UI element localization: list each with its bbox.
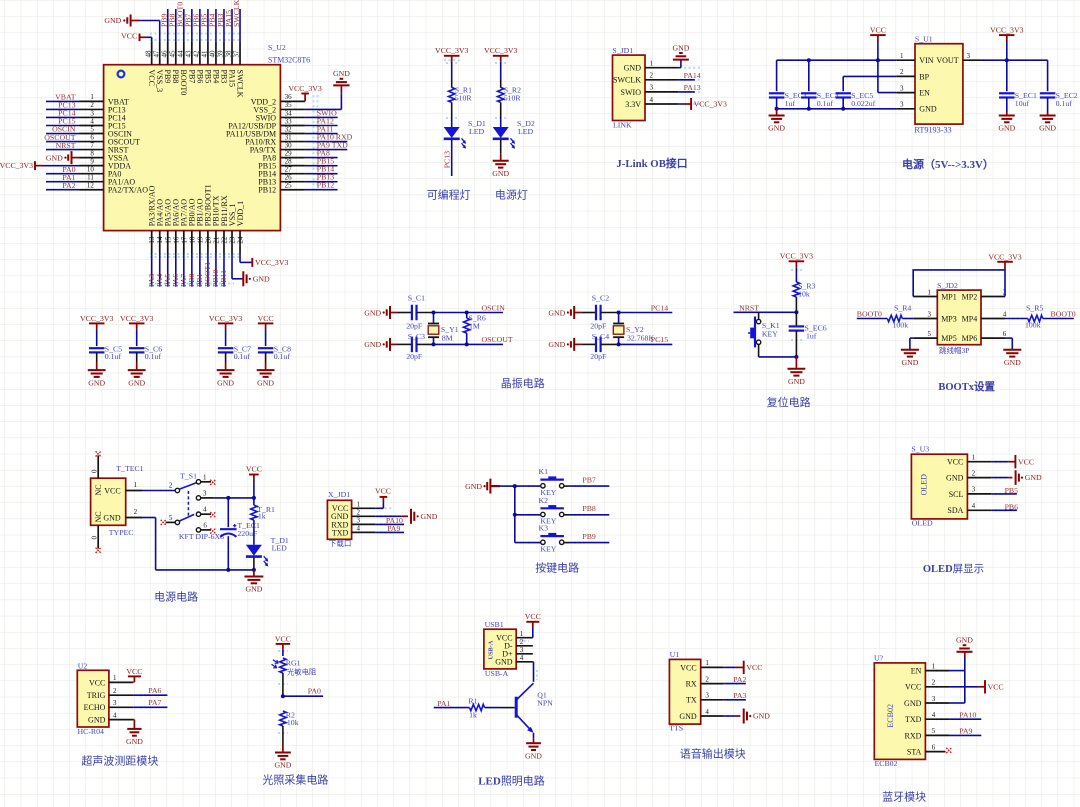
junction xyxy=(465,311,469,315)
pin 32 PA11/USB/DM xyxy=(226,125,305,138)
svg-text:34: 34 xyxy=(285,109,293,117)
svg-text:510R: 510R xyxy=(504,94,522,103)
svg-text:PB9: PB9 xyxy=(163,70,172,84)
connector USB1 inner label xyxy=(488,640,495,659)
net label PC15 xyxy=(58,117,75,126)
wire net PA2 xyxy=(46,189,80,191)
wire net NRST xyxy=(734,311,797,313)
pin 22 PB11/RX xyxy=(220,195,229,254)
wire net PC13 xyxy=(46,108,80,110)
svg-text:1: 1 xyxy=(134,481,138,489)
wire VSSA to ground xyxy=(72,157,80,159)
junction xyxy=(617,342,621,346)
wire net PA0 xyxy=(283,695,323,697)
svg-text:20pF: 20pF xyxy=(406,352,423,361)
pin 18 PB0/AO xyxy=(188,198,197,253)
net label PA7 xyxy=(179,274,188,287)
svg-text:PB4: PB4 xyxy=(211,70,220,84)
svg-text:GND: GND xyxy=(753,712,770,721)
pin 11 PA1/AO xyxy=(80,174,136,187)
connector JD1 J-Link body xyxy=(613,55,646,120)
svg-text:VCC: VCC xyxy=(375,487,391,496)
wire net PB7 xyxy=(564,485,609,487)
wire pin5 to ground xyxy=(910,338,913,350)
junction xyxy=(807,58,811,62)
net label BOOT0 xyxy=(857,310,882,319)
svg-text:44: 44 xyxy=(177,50,185,58)
junction xyxy=(876,58,880,62)
pin 1 VCC xyxy=(680,659,723,672)
svg-text:VCC: VCC xyxy=(275,634,291,643)
module U? ECB02 body xyxy=(874,663,925,760)
svg-text:MP5: MP5 xyxy=(941,334,957,343)
net label OSCIN xyxy=(482,303,506,312)
module U2 reference xyxy=(78,661,88,670)
net label PB3 xyxy=(216,13,225,27)
pin 10 PA0 xyxy=(80,165,122,178)
module U1 reference xyxy=(670,650,680,659)
LED S_D1 xyxy=(444,119,486,149)
svg-text:PA2/TX/AO: PA2/TX/AO xyxy=(108,186,148,195)
svg-text:4: 4 xyxy=(203,506,207,514)
ground xyxy=(492,154,509,178)
caption LED照明电路 xyxy=(478,775,545,788)
svg-text:GND: GND xyxy=(465,482,482,491)
ground (VSSA) xyxy=(46,151,72,164)
pushbutton K1 KEY xyxy=(748,317,780,348)
svg-text:2: 2 xyxy=(650,72,654,80)
wire pin1-pin2 loop xyxy=(913,270,1005,297)
pin 2 BP xyxy=(896,68,929,81)
svg-text:PB3: PB3 xyxy=(219,70,228,84)
wire net PB10 xyxy=(215,254,217,287)
ground (pin35 VSS_2) xyxy=(333,69,350,93)
connector JD2 reference xyxy=(937,281,958,290)
module U1 TTS body xyxy=(669,659,700,724)
wire pin6 to ground xyxy=(1005,338,1012,350)
svg-text:光敏电阻: 光敏电阻 xyxy=(287,668,317,677)
svg-text:MP3: MP3 xyxy=(941,314,957,323)
wire net BOOT1 xyxy=(207,254,209,287)
power flag VCC xyxy=(258,314,274,346)
ground (OLED pin2) xyxy=(1016,470,1042,485)
svg-text:TX: TX xyxy=(686,696,697,705)
svg-text:跳线帽3P: 跳线帽3P xyxy=(939,345,969,355)
svg-text:32: 32 xyxy=(285,125,293,133)
svg-text:4: 4 xyxy=(90,117,94,125)
svg-text:4: 4 xyxy=(520,654,524,662)
svg-text:1: 1 xyxy=(928,288,932,296)
wire net PA2 xyxy=(724,683,746,685)
ground xyxy=(998,112,1015,133)
svg-text:S_R4: S_R4 xyxy=(894,303,911,312)
connector X_JD1 name 下载口 xyxy=(329,538,352,548)
wire xyxy=(1005,318,1028,320)
svg-text:31: 31 xyxy=(285,133,293,141)
pin 44 BOOT0 xyxy=(177,41,189,95)
resistor S_R1 510R xyxy=(449,86,473,103)
svg-text:GND: GND xyxy=(46,153,63,162)
wire net PB14 xyxy=(305,173,338,175)
pin 4 SDA xyxy=(947,502,991,515)
wire net BOOT0 xyxy=(183,9,185,41)
pin 4 GND xyxy=(495,654,533,667)
svg-text:S_R5: S_R5 xyxy=(1026,303,1043,312)
wire pin2 to VCC xyxy=(950,686,985,688)
pin 2 TRIG xyxy=(87,687,134,700)
net label PA4 xyxy=(155,274,164,287)
pin 1 GND xyxy=(624,60,678,73)
power flag VCC (T branch) xyxy=(246,465,262,482)
svg-text:J-Link OB接口: J-Link OB接口 xyxy=(616,156,687,170)
wire base xyxy=(434,707,470,709)
svg-text:6: 6 xyxy=(932,743,936,751)
svg-text:0: 0 xyxy=(91,536,99,540)
ground xyxy=(901,350,919,367)
pin 43 PB7 xyxy=(185,41,197,83)
svg-text:220uF: 220uF xyxy=(237,529,258,538)
pin 4 TXD xyxy=(905,711,950,724)
svg-text:K2: K2 xyxy=(539,496,549,505)
net label BOOT1 xyxy=(203,262,212,287)
wire xyxy=(500,102,502,127)
power flag VCC_3V3 (VDDA) xyxy=(0,161,35,170)
pin 15 PA5/AO xyxy=(164,199,173,254)
svg-text:20pF: 20pF xyxy=(406,321,423,330)
svg-text:5: 5 xyxy=(169,514,173,522)
net label PA9 xyxy=(959,727,972,736)
svg-text:25: 25 xyxy=(285,182,293,190)
net label PB8 xyxy=(168,13,177,27)
svg-text:蓝牙模块: 蓝牙模块 xyxy=(882,791,926,804)
svg-text:MP6: MP6 xyxy=(962,334,978,343)
pin 20 PB2/BOOT1 xyxy=(204,184,213,253)
svg-text:PB6: PB6 xyxy=(1005,502,1019,511)
wire xyxy=(253,558,255,570)
svg-text:GND: GND xyxy=(768,124,785,133)
svg-text:1: 1 xyxy=(972,454,976,462)
wire pin1 to VCC xyxy=(376,497,384,508)
svg-text:BOOTx设置: BOOTx设置 xyxy=(938,380,995,393)
net label PA15 xyxy=(224,10,233,27)
power flag VCC (USB1) xyxy=(525,612,541,627)
wire net PA3 xyxy=(151,254,153,287)
wire xyxy=(417,312,504,314)
wire xyxy=(759,345,797,357)
pin 17 PA7/AO xyxy=(180,199,189,254)
pushbutton K1 KEY xyxy=(539,467,564,497)
wire net PB8 xyxy=(175,9,177,41)
wire xyxy=(390,343,412,345)
svg-text:39: 39 xyxy=(217,50,225,58)
svg-text:ECB02: ECB02 xyxy=(886,704,895,728)
svg-text:3: 3 xyxy=(357,516,361,524)
wire net BOOT0 (right) xyxy=(1043,318,1074,320)
connector JD1 name LINK xyxy=(613,121,632,130)
svg-text:1: 1 xyxy=(705,659,709,667)
wire GND pin to bottom bus xyxy=(142,518,254,570)
connector TEC1 TYPEC body xyxy=(91,478,126,525)
wire net PA6 xyxy=(175,254,177,287)
svg-text:3: 3 xyxy=(932,695,936,703)
svg-text:2: 2 xyxy=(705,675,709,683)
svg-text:光照采集电路: 光照采集电路 xyxy=(262,773,328,787)
connector JD2 name 跳线帽3P xyxy=(939,345,969,355)
svg-text:PA6: PA6 xyxy=(148,686,161,695)
wire xyxy=(574,343,596,345)
svg-text:0.1uf: 0.1uf xyxy=(1056,99,1073,108)
pin 1 VCC xyxy=(947,454,991,467)
ground xyxy=(126,720,143,747)
svg-text:S_JD2: S_JD2 xyxy=(937,281,958,290)
svg-text:10: 10 xyxy=(87,165,95,173)
svg-text:4: 4 xyxy=(932,711,936,719)
svg-text:GND: GND xyxy=(548,308,565,317)
svg-text:8M: 8M xyxy=(442,333,453,342)
svg-text:GND: GND xyxy=(274,761,291,770)
svg-text:2: 2 xyxy=(900,68,904,76)
pin 38 PA15 xyxy=(225,41,237,87)
svg-text:VCC: VCC xyxy=(104,486,120,495)
ground xyxy=(128,362,146,387)
svg-text:1: 1 xyxy=(900,52,904,60)
svg-text:13: 13 xyxy=(148,236,156,244)
svg-text:TRIG: TRIG xyxy=(87,691,106,700)
wire net OSCOUT xyxy=(46,141,80,143)
caption BOOTx设置 xyxy=(938,380,995,393)
regulator U1 value RT9193-33 xyxy=(914,126,951,135)
ground xyxy=(1039,112,1056,133)
pin 2 SWCLK xyxy=(613,72,678,85)
net label PC15 xyxy=(651,335,668,344)
wire pin4 to ground xyxy=(724,715,741,717)
MCU U2 STM32C8T6 body xyxy=(104,65,281,231)
net label PA2 xyxy=(62,181,75,190)
junction xyxy=(252,496,256,500)
svg-text:BP: BP xyxy=(919,72,929,81)
svg-text:VCC_3V3: VCC_3V3 xyxy=(120,314,153,323)
svg-text:46: 46 xyxy=(160,50,168,58)
svg-text:MP2: MP2 xyxy=(962,292,978,301)
svg-text:TXD: TXD xyxy=(332,528,349,537)
svg-text:SCL: SCL xyxy=(949,490,964,499)
wire net PA13 xyxy=(678,91,695,93)
net label PB7 xyxy=(184,13,193,27)
net label PA3 xyxy=(733,691,746,700)
capacitor S_EC3 1uf xyxy=(769,91,807,108)
svg-text:1: 1 xyxy=(90,93,94,101)
svg-text:GND: GND xyxy=(1025,473,1042,482)
pin 6 STA xyxy=(907,743,946,756)
wire xyxy=(265,352,267,362)
pin 14 PA4/AO xyxy=(156,199,165,254)
svg-text:0.1uf: 0.1uf xyxy=(234,352,251,361)
capacitor S_C3 20pF xyxy=(406,332,425,361)
pin 3 ECHO xyxy=(84,699,134,712)
svg-text:GND: GND xyxy=(364,308,381,317)
module U2 HC-R04 body xyxy=(77,670,109,727)
svg-text:24: 24 xyxy=(237,236,245,244)
svg-text:1k: 1k xyxy=(258,512,266,521)
net label PA9 xyxy=(387,524,400,533)
pin 33 PA12/USB/DP xyxy=(228,117,305,130)
net label PB14 xyxy=(317,164,334,173)
svg-text:VCC: VCC xyxy=(525,612,541,621)
svg-text:PB5: PB5 xyxy=(203,70,212,84)
pin 3 GND xyxy=(896,101,937,114)
pin 2 GND xyxy=(946,469,991,482)
net label PA11 xyxy=(317,124,334,133)
svg-text:4: 4 xyxy=(1003,310,1007,318)
svg-text:4: 4 xyxy=(650,96,654,104)
svg-text:OLED: OLED xyxy=(920,474,929,496)
net label PB10 xyxy=(211,270,220,287)
svg-text:VCC: VCC xyxy=(121,32,137,41)
pin 0 (shield bottom) xyxy=(91,525,99,548)
svg-text:S_C1: S_C1 xyxy=(408,293,425,302)
svg-text:T_S1: T_S1 xyxy=(180,472,197,481)
pin 2 PC13 xyxy=(80,101,126,114)
wire xyxy=(253,520,255,545)
resistor R3 10k xyxy=(793,281,815,298)
caption 语音输出模块 xyxy=(680,746,746,760)
svg-text:HC-R04: HC-R04 xyxy=(78,727,105,736)
connector JD1 reference xyxy=(612,46,633,55)
junction xyxy=(513,513,517,517)
pin 2 GND xyxy=(331,508,376,521)
wire pin2 to ground xyxy=(991,477,1012,479)
svg-text:LED: LED xyxy=(469,127,485,136)
wire xyxy=(136,352,138,362)
svg-text:电源（5V-->3.3V）: 电源（5V-->3.3V） xyxy=(902,157,994,171)
pin 16 PA6/AO xyxy=(172,199,181,254)
pin 40 PB4 xyxy=(209,41,221,83)
wire xyxy=(776,98,778,109)
svg-text:PB12: PB12 xyxy=(317,181,334,190)
svg-text:6: 6 xyxy=(203,521,207,529)
capacitor EC6 1uf xyxy=(789,312,827,340)
wire net PB8 xyxy=(564,514,609,516)
svg-text:OSCOUT: OSCOUT xyxy=(482,335,513,344)
svg-text:10k: 10k xyxy=(287,718,299,727)
svg-text:3: 3 xyxy=(705,692,709,700)
svg-text:PB5: PB5 xyxy=(1005,486,1019,495)
connector TEC1 name TYPEC xyxy=(109,528,134,537)
svg-text:OSCIN: OSCIN xyxy=(482,303,506,312)
ground (JD1 pin1) xyxy=(672,43,689,59)
module U1 name TTS xyxy=(669,723,683,732)
display U3 inner label xyxy=(920,474,929,496)
pin 3 RXD xyxy=(331,516,375,529)
svg-text:PB8: PB8 xyxy=(171,70,180,84)
svg-text:VCC_3V3: VCC_3V3 xyxy=(484,46,517,55)
svg-text:26: 26 xyxy=(285,174,293,182)
power flag VCC (OLED) xyxy=(1015,455,1034,468)
power flag VCC (pin48) xyxy=(121,32,139,42)
svg-text:PB9: PB9 xyxy=(582,532,596,541)
wire net PB5 xyxy=(991,493,1017,495)
capacitor S_EC2 0.1uf xyxy=(1040,91,1078,108)
svg-text:PA3: PA3 xyxy=(733,691,746,700)
wire xyxy=(532,628,534,638)
power flag VCC_3V3 (S_R2 branch) xyxy=(484,46,517,62)
pin 7 NRST xyxy=(80,141,129,154)
pin 4 GND xyxy=(88,711,133,724)
wire xyxy=(227,536,229,570)
net label PA10 xyxy=(317,132,353,141)
svg-text:1uf: 1uf xyxy=(785,99,796,108)
junction xyxy=(841,107,845,111)
wire xyxy=(515,485,541,487)
wire pin1 to VCC xyxy=(724,666,744,668)
power flag VCC_3V3 (JD2) xyxy=(988,252,1021,270)
svg-text:ECB02: ECB02 xyxy=(875,759,898,768)
svg-text:S_C3: S_C3 xyxy=(408,332,425,341)
wire net PA7 xyxy=(133,706,167,708)
pin 2 VCC xyxy=(905,679,950,692)
junction xyxy=(252,568,256,572)
svg-text:SWCLK: SWCLK xyxy=(235,70,244,98)
wire net PC14 xyxy=(46,116,80,118)
wire net PA9 xyxy=(950,734,981,736)
wire xyxy=(0,0,1,1)
ground (X_JD1 pin2) xyxy=(411,509,438,524)
svg-text:KFT DIP-6X8: KFT DIP-6X8 xyxy=(179,532,224,541)
svg-text:NRST: NRST xyxy=(56,141,76,150)
svg-text:3.3V: 3.3V xyxy=(625,100,641,109)
svg-text:EN: EN xyxy=(911,667,922,676)
svg-text:GND: GND xyxy=(1039,124,1056,133)
power flag VCC_3V3 (pin36) xyxy=(288,84,321,101)
pin 1 VCC xyxy=(89,674,133,687)
wire xyxy=(808,98,810,109)
LED T_D1 xyxy=(246,536,289,567)
junction xyxy=(775,107,779,111)
pin 3 TX xyxy=(686,692,724,705)
svg-text:VCC: VCC xyxy=(905,683,921,692)
wire net PA0 xyxy=(46,173,80,175)
switch S1 KFT DIP-6X8 xyxy=(161,472,224,541)
svg-text:1: 1 xyxy=(113,674,117,682)
junction xyxy=(513,484,517,488)
pin 2 MP2 xyxy=(962,288,1007,301)
net label PA1 xyxy=(62,173,75,182)
junction xyxy=(794,355,798,359)
svg-text:19: 19 xyxy=(196,236,204,244)
svg-text:GND: GND xyxy=(624,64,642,73)
svg-text:VCC_3V3: VCC_3V3 xyxy=(288,84,321,93)
svg-text:PA2: PA2 xyxy=(62,181,75,190)
svg-text:3: 3 xyxy=(113,699,117,707)
ground (S_C3 side) xyxy=(364,338,390,351)
caption OLED屏显示 xyxy=(923,563,984,575)
svg-text:下载口: 下载口 xyxy=(329,538,352,548)
pin 24 VDD_1 xyxy=(236,201,245,254)
svg-text:GND: GND xyxy=(421,512,438,521)
wire xyxy=(451,102,453,127)
svg-text:GND: GND xyxy=(492,169,509,178)
pin 29 PA8 xyxy=(263,149,305,162)
power flag VCC_3V3 (VOUT) xyxy=(990,26,1023,41)
svg-text:NC: NC xyxy=(94,484,103,495)
svg-text:GND: GND xyxy=(364,340,381,349)
svg-text:21: 21 xyxy=(212,236,220,244)
pin 6 OSCOUT xyxy=(80,133,141,146)
display U3 OLED body xyxy=(911,454,967,519)
svg-text:K3: K3 xyxy=(539,524,549,533)
svg-text:LINK: LINK xyxy=(613,121,632,130)
svg-text:10uf: 10uf xyxy=(1015,99,1030,108)
